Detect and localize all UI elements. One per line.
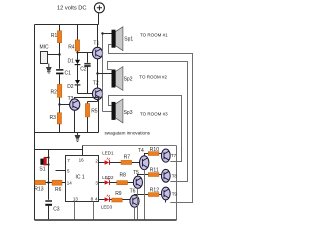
svg-text:D1: D1 [68,59,75,65]
svg-text:R5: R5 [91,109,98,115]
svg-text:R13: R13 [34,187,43,193]
svg-text:16: 16 [79,158,85,163]
svg-text:Sp3: Sp3 [124,110,133,116]
svg-text:12 volts DC: 12 volts DC [57,6,87,12]
svg-text:R3: R3 [50,115,57,121]
svg-text:LED3: LED3 [101,205,113,210]
svg-text:D2: D2 [67,84,74,90]
svg-text:R2: R2 [51,90,58,96]
svg-text:R12: R12 [150,187,159,193]
svg-text:Sp2: Sp2 [124,76,133,82]
svg-text:LED1: LED1 [102,151,114,156]
svg-text:T1: T1 [93,41,99,47]
svg-text:LED2: LED2 [102,175,114,180]
svg-text:C2: C2 [80,67,87,73]
svg-text:C1: C1 [65,71,72,77]
svg-text:R1: R1 [51,33,58,39]
svg-text:14: 14 [67,180,73,185]
svg-text:T4: T4 [138,148,144,154]
svg-text:T6: T6 [130,189,136,195]
svg-text:R8: R8 [120,172,127,178]
svg-text:S1: S1 [39,166,45,172]
svg-text:R10: R10 [150,147,159,153]
svg-text:T7: T7 [171,153,177,158]
svg-text:Sp1: Sp1 [124,37,133,43]
svg-text:R6: R6 [55,187,62,193]
svg-text:R9: R9 [115,191,122,197]
svg-text:TO ROOM #2: TO ROOM #2 [139,74,167,79]
svg-text:R11: R11 [150,167,159,173]
svg-text:TO ROOM #3: TO ROOM #3 [140,112,168,117]
svg-text:T2: T2 [93,80,99,86]
svg-text:T3: T3 [68,96,74,102]
svg-text:TO ROOM #1: TO ROOM #1 [140,33,168,38]
svg-text:T8: T8 [172,174,178,179]
svg-text:IC 1: IC 1 [76,174,85,180]
svg-text:MIC: MIC [40,45,50,51]
svg-text:13: 13 [73,196,79,201]
svg-text:swagatam innovations: swagatam innovations [105,131,151,136]
svg-text:R4: R4 [68,45,75,51]
svg-text:C3: C3 [53,206,60,212]
svg-text:R7: R7 [124,154,131,160]
svg-text:T9: T9 [172,192,178,197]
